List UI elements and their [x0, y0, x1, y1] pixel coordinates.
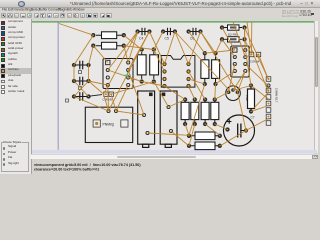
- resistor R15 (bank): [210, 97, 218, 126]
- capacitor C3: [71, 61, 90, 74]
- svg-text:CONN4: CONN4: [250, 60, 260, 64]
- relay K2: [160, 91, 177, 147]
- op-amp U1 (DIP-8): [103, 59, 133, 89]
- svg-text:CONN5: CONN5: [102, 98, 112, 102]
- resistor R3: [137, 47, 146, 83]
- window title bar: [0, 0, 320, 8]
- svg-text:CONN-SIL7: CONN-SIL7: [274, 88, 278, 103]
- svg-text:PNM0(): PNM0(): [102, 122, 114, 126]
- resistor R12 (bank): [181, 97, 189, 126]
- resistor R6: [211, 51, 219, 86]
- resistor R10: [219, 37, 246, 42]
- op-amp U3 (DIP-8): [230, 46, 248, 77]
- svg-text:C4: C4: [139, 37, 143, 41]
- transistor Q1: [225, 86, 240, 101]
- capacitor C7 (electrolytic): [223, 115, 254, 146]
- menu bar: [0, 8, 320, 13]
- resistor R2: [91, 42, 126, 49]
- svg-text:D2 R6: D2 R6: [228, 32, 237, 36]
- capacitor C2: [71, 77, 90, 90]
- board top edge (outline layer): [32, 21, 314, 23]
- crosshair cursor: [124, 72, 130, 78]
- canvas SVG placeholder: [31, 21, 32, 154]
- capacitor C4: [135, 28, 151, 41]
- status bar: [34, 163, 292, 176]
- capacitor C5: [160, 28, 176, 41]
- lead C1 to J1: [89, 95, 102, 97]
- toolbar: [0, 13, 320, 21]
- capacitor C1: [65, 92, 90, 102]
- resistor R13 (bank): [190, 97, 198, 126]
- horizontal scrollbar: [31, 154, 318, 159]
- resistor R17: [186, 142, 221, 150]
- rat lines (unrouted nets): [59, 22, 269, 146]
- resistor R1: [91, 32, 126, 39]
- resistor R14 (bank): [201, 97, 209, 126]
- capacitor C6: [186, 28, 202, 41]
- vertical scrollbar: [314, 21, 319, 153]
- resistor R4: [149, 47, 158, 83]
- resistor R16: [186, 132, 221, 140]
- resistor R5: [200, 51, 208, 86]
- svg-text:C5: C5: [164, 37, 168, 41]
- solder-layer vertical trace: [57, 23, 59, 150]
- op-amp U2 (DIP-8): [161, 56, 195, 88]
- resistor R9: [219, 25, 246, 30]
- svg-text:C7: C7: [250, 116, 254, 120]
- left panel: layer list: [0, 19, 32, 174]
- relay K1: [137, 91, 154, 147]
- coordinate readout: [262, 8, 314, 21]
- connector J3 (SIL): [266, 77, 278, 126]
- svg-text:J10A: J10A: [245, 95, 249, 101]
- resistor R11: [245, 83, 254, 113]
- off-board bottom band: [32, 150, 315, 154]
- module MOD1: [85, 107, 132, 142]
- connector J2: [249, 52, 260, 63]
- connector J1: [102, 92, 113, 102]
